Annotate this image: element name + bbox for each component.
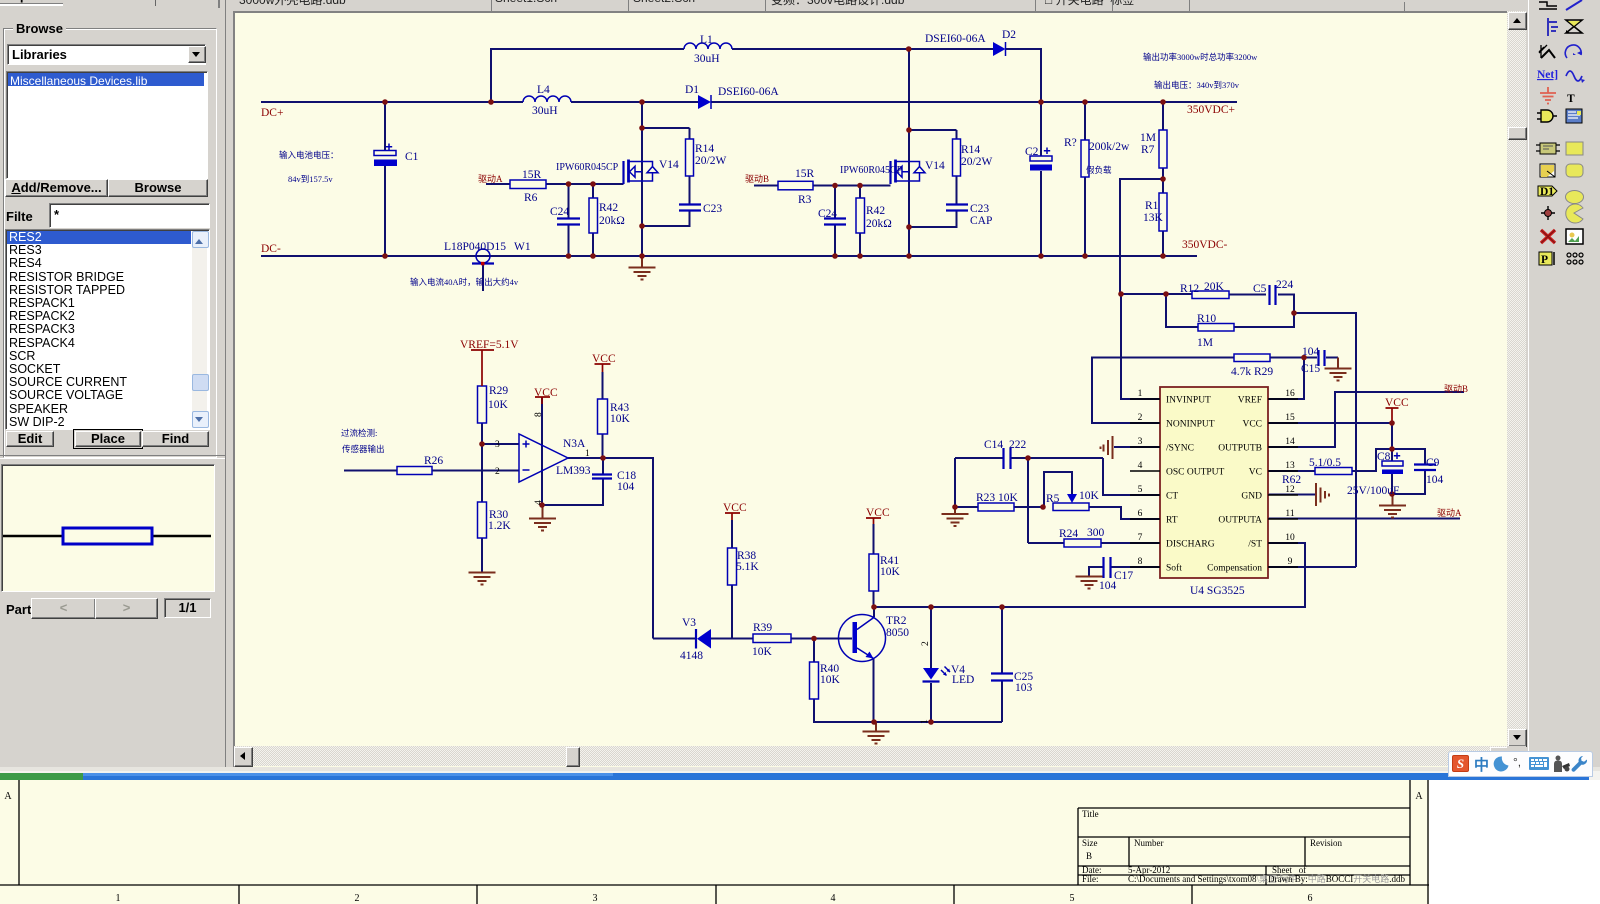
svg-text:LED: LED — [952, 674, 974, 686]
svg-text:20/2W: 20/2W — [961, 156, 992, 168]
svg-text:V3: V3 — [682, 617, 696, 629]
svg-text:3: 3 — [593, 893, 598, 904]
svg-text:D1: D1 — [1540, 186, 1554, 198]
svg-text:84v到157.5v: 84v到157.5v — [288, 174, 333, 184]
svg-text:P: P — [1541, 254, 1548, 266]
svg-text:15R: 15R — [795, 168, 815, 180]
svg-text:2: 2 — [355, 893, 360, 904]
svg-text:350VDC+: 350VDC+ — [1187, 104, 1235, 116]
svg-text:10K: 10K — [880, 566, 901, 578]
svg-text:14: 14 — [1285, 437, 1295, 447]
svg-text:11: 11 — [1285, 509, 1294, 519]
svg-text:DISCHARG: DISCHARG — [1166, 540, 1215, 550]
svg-text:R6: R6 — [524, 192, 538, 204]
svg-text:C8: C8 — [1377, 451, 1391, 463]
svg-text:30uH: 30uH — [532, 105, 558, 117]
svg-text:C24: C24 — [550, 206, 569, 218]
svg-text:R39: R39 — [753, 622, 772, 634]
svg-text:/ST: /ST — [1248, 540, 1262, 550]
svg-text:OUTPUTB: OUTPUTB — [1218, 444, 1262, 454]
svg-text:VCC: VCC — [1385, 397, 1409, 409]
svg-text:104: 104 — [1426, 474, 1444, 486]
svg-text:20/2W: 20/2W — [695, 155, 726, 167]
svg-text:D2: D2 — [1002, 29, 1016, 41]
svg-text:R29: R29 — [489, 385, 508, 397]
svg-text:输出电压：340v到370v: 输出电压：340v到370v — [1154, 80, 1240, 90]
svg-text:R3: R3 — [798, 194, 812, 206]
svg-text:R1: R1 — [1145, 200, 1159, 212]
svg-text:6: 6 — [1308, 893, 1313, 904]
svg-text:15: 15 — [1285, 413, 1295, 423]
svg-text:R24: R24 — [1059, 528, 1078, 540]
svg-text:V14: V14 — [925, 160, 945, 172]
svg-text:U4 SG3525: U4 SG3525 — [1190, 585, 1245, 597]
svg-text:15R: 15R — [522, 169, 542, 181]
svg-text:Number: Number — [1134, 838, 1164, 848]
svg-text:L1: L1 — [700, 34, 713, 46]
svg-text:200k/2w: 200k/2w — [1089, 141, 1130, 153]
svg-text:R62: R62 — [1282, 474, 1301, 486]
svg-text:4.7k R29: 4.7k R29 — [1231, 366, 1273, 378]
svg-text:C24: C24 — [818, 208, 837, 220]
svg-text:/SYNC: /SYNC — [1166, 444, 1194, 454]
svg-text:输入电池电压：: 输入电池电压： — [279, 150, 339, 160]
svg-text:13K: 13K — [1143, 212, 1164, 224]
svg-text:10K: 10K — [752, 646, 773, 658]
svg-text:过流检测:: 过流检测: — [341, 428, 377, 438]
svg-text:104: 104 — [1302, 346, 1320, 358]
svg-text:D1: D1 — [685, 84, 699, 96]
svg-text:1: 1 — [585, 449, 590, 459]
svg-text:L18P040D15: L18P040D15 — [444, 241, 506, 253]
svg-text:IPW60R045CP: IPW60R045CP — [840, 165, 903, 176]
svg-text:20kΩ: 20kΩ — [866, 218, 892, 230]
svg-text:R42: R42 — [866, 205, 885, 217]
svg-text:20kΩ: 20kΩ — [599, 215, 625, 227]
svg-text:OSC OUTPUT: OSC OUTPUT — [1166, 468, 1225, 478]
svg-text:10K: 10K — [610, 413, 631, 425]
svg-text:3: 3 — [495, 440, 500, 450]
svg-text:File:: File: — [1082, 874, 1099, 884]
svg-text:C15: C15 — [1301, 363, 1320, 375]
svg-text:CAP: CAP — [970, 215, 992, 227]
svg-text:3: 3 — [1138, 437, 1143, 447]
svg-text:VC: VC — [1249, 468, 1262, 478]
svg-text:R?: R? — [1064, 137, 1077, 149]
svg-text:4148: 4148 — [680, 650, 703, 662]
svg-text:R5: R5 — [1046, 493, 1060, 505]
svg-text:Net]: Net] — [1537, 69, 1558, 81]
svg-text:2: 2 — [495, 467, 500, 477]
svg-text:VREF=5.1V: VREF=5.1V — [460, 339, 519, 351]
svg-text:DC+: DC+ — [261, 107, 283, 119]
svg-text:W1: W1 — [514, 241, 531, 253]
svg-text:DC-: DC- — [261, 243, 281, 255]
svg-text:224: 224 — [1276, 279, 1294, 291]
svg-text:驱动A: 驱动A — [1437, 508, 1462, 518]
svg-text:10K: 10K — [1079, 490, 1100, 502]
svg-text:12: 12 — [1285, 485, 1295, 495]
svg-text:R23 10K: R23 10K — [976, 492, 1019, 504]
svg-text:1M: 1M — [1140, 132, 1156, 144]
svg-text:5.1K: 5.1K — [736, 561, 759, 573]
svg-text:10K: 10K — [820, 674, 841, 686]
svg-text:输入电流40A时，输出大约4v: 输入电流40A时，输出大约4v — [410, 277, 519, 287]
svg-text:Soft: Soft — [1166, 563, 1182, 574]
svg-text:Compensation: Compensation — [1207, 564, 1262, 574]
svg-text:N3A: N3A — [563, 438, 586, 450]
svg-text:驱动B: 驱动B — [1444, 384, 1468, 394]
svg-text:8050: 8050 — [886, 627, 909, 639]
svg-text:R12: R12 — [1180, 283, 1199, 295]
svg-text:6: 6 — [1138, 509, 1143, 519]
svg-text:R14: R14 — [961, 144, 980, 156]
svg-text:Drawn By:中路BOCCI开关电路.ddb: Drawn By:中路BOCCI开关电路.ddb — [1268, 873, 1406, 884]
svg-text:CT: CT — [1166, 492, 1178, 502]
svg-text:Revision: Revision — [1310, 838, 1343, 848]
svg-text:传感器输出: 传感器输出 — [342, 444, 385, 454]
svg-text:VCC: VCC — [723, 502, 747, 514]
svg-text:C14: C14 — [984, 439, 1003, 451]
svg-text:10K: 10K — [488, 399, 509, 411]
svg-text:驱动B: 驱动B — [745, 174, 769, 184]
svg-text:4: 4 — [831, 893, 836, 904]
svg-text:9: 9 — [1288, 557, 1293, 567]
svg-text:C23: C23 — [970, 203, 989, 215]
svg-text:C1: C1 — [405, 151, 419, 163]
svg-text:13: 13 — [1285, 461, 1295, 471]
svg-text:R7: R7 — [1141, 144, 1155, 156]
svg-text:1.2K: 1.2K — [488, 520, 511, 532]
svg-text:1: 1 — [1138, 389, 1143, 399]
svg-text:C2: C2 — [1025, 146, 1039, 158]
svg-text:DSEI60-06A: DSEI60-06A — [925, 33, 986, 45]
svg-text:25V/100uF: 25V/100uF — [1347, 485, 1399, 497]
svg-text:222: 222 — [1009, 439, 1027, 451]
svg-text:1: 1 — [920, 719, 930, 724]
svg-text:B: B — [1086, 851, 1092, 861]
svg-text:V14: V14 — [659, 159, 679, 171]
svg-text:C23: C23 — [703, 203, 722, 215]
svg-text:IPW60R045CP: IPW60R045CP — [556, 162, 619, 173]
svg-text:VCC: VCC — [592, 353, 616, 365]
svg-text:350VDC-: 350VDC- — [1182, 239, 1228, 251]
svg-text:A: A — [4, 791, 12, 802]
svg-text:104: 104 — [617, 481, 635, 493]
svg-text:104: 104 — [1099, 580, 1117, 592]
svg-text:R14: R14 — [695, 143, 714, 155]
svg-text:1: 1 — [116, 893, 121, 904]
svg-text:GND: GND — [1241, 492, 1262, 502]
svg-text:7: 7 — [1138, 533, 1143, 543]
svg-text:30uH: 30uH — [694, 53, 720, 65]
svg-text:VCC: VCC — [534, 387, 558, 399]
svg-text:VCC: VCC — [1242, 420, 1262, 430]
svg-text:C9: C9 — [1426, 457, 1440, 469]
svg-text:L4: L4 — [537, 84, 550, 96]
svg-text:Size: Size — [1082, 838, 1098, 848]
svg-text:A: A — [1415, 791, 1423, 802]
svg-text:5: 5 — [1138, 485, 1143, 495]
svg-text:2: 2 — [1138, 413, 1143, 423]
svg-text:驱动A: 驱动A — [478, 174, 503, 184]
svg-text:10: 10 — [1285, 533, 1295, 543]
svg-text:20K: 20K — [1204, 281, 1225, 293]
svg-text:16: 16 — [1285, 389, 1295, 399]
svg-text:R26: R26 — [424, 455, 443, 467]
svg-text:NONINPUT: NONINPUT — [1166, 420, 1215, 430]
svg-text:TR2: TR2 — [886, 615, 907, 627]
svg-text:VREF: VREF — [1238, 396, 1262, 406]
svg-text:DSEI60-06A: DSEI60-06A — [718, 86, 779, 98]
svg-text:LM393: LM393 — [556, 465, 591, 477]
svg-text:R42: R42 — [599, 202, 618, 214]
svg-text:Title: Title — [1082, 809, 1099, 819]
svg-text:8: 8 — [1138, 557, 1143, 567]
svg-text:103: 103 — [1015, 682, 1033, 694]
svg-text:C5: C5 — [1253, 283, 1267, 295]
svg-text:假负载: 假负载 — [1086, 165, 1112, 175]
svg-text:1M: 1M — [1197, 337, 1213, 349]
svg-text:4: 4 — [1138, 461, 1143, 471]
svg-text:5.1/0.5: 5.1/0.5 — [1309, 457, 1341, 469]
svg-text:C17: C17 — [1114, 570, 1133, 582]
svg-text:RT: RT — [1166, 516, 1178, 526]
svg-text:2: 2 — [921, 641, 931, 646]
svg-text:T: T — [1567, 93, 1575, 105]
svg-text:INVINPUT: INVINPUT — [1166, 396, 1211, 406]
svg-text:5: 5 — [1070, 893, 1075, 904]
svg-text:8: 8 — [534, 412, 544, 417]
svg-text:输出功率3000w时总功率3200w: 输出功率3000w时总功率3200w — [1143, 52, 1258, 62]
svg-text:4: 4 — [534, 500, 544, 505]
svg-text:OUTPUTA: OUTPUTA — [1218, 516, 1262, 526]
svg-text:VCC: VCC — [866, 507, 890, 519]
svg-text:300: 300 — [1087, 527, 1105, 539]
svg-text:R10: R10 — [1197, 313, 1216, 325]
